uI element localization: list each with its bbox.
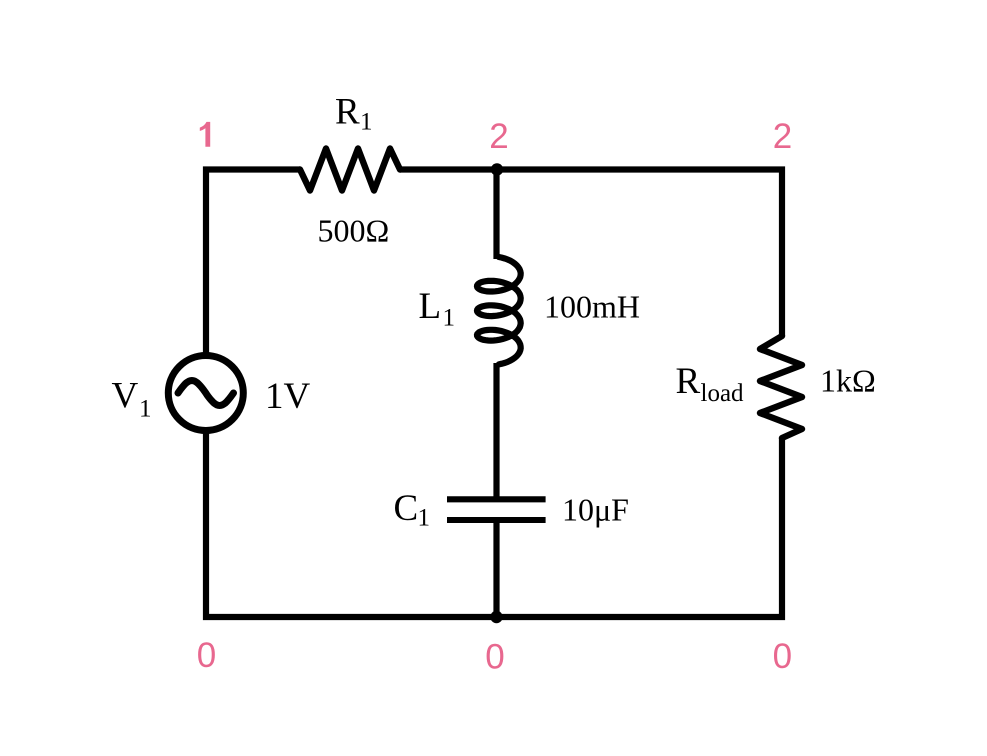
wire: L1 to C1: [493, 363, 499, 501]
capacitor C1 bottom plate: [447, 517, 546, 523]
inductor L1: [477, 257, 521, 364]
svg-text:load: load: [701, 380, 745, 407]
wire: top rail from R1 to top-right corner, down to Rload: [400, 170, 782, 337]
voltage source V1 circle: [168, 356, 243, 431]
svg-text:1: 1: [418, 505, 431, 532]
svg-text:2: 2: [489, 117, 508, 156]
wire: C1 down to bottom rail: [493, 520, 499, 617]
svg-text:L: L: [419, 286, 442, 327]
resistor R1: [300, 149, 400, 191]
svg-text:R: R: [676, 361, 701, 402]
resistor Rload: [760, 336, 802, 438]
svg-text:1: 1: [139, 396, 152, 423]
capacitor C1 top plate: [447, 496, 546, 502]
svg-text:C: C: [394, 488, 419, 529]
svg-text:0: 0: [773, 637, 792, 676]
wire: node 1 top-left corner, left branch down to V1: [206, 170, 300, 357]
svg-text:1kΩ: 1kΩ: [820, 363, 876, 399]
node label 1: [200, 122, 210, 147]
svg-text:1: 1: [443, 305, 456, 332]
svg-text:2: 2: [773, 117, 792, 156]
wire: Rload down, bottom rail, up to V1 bottom: [206, 430, 782, 617]
svg-text:1: 1: [360, 109, 373, 136]
svg-text:V: V: [112, 376, 139, 417]
svg-text:R: R: [335, 92, 360, 133]
node 2 junction dot: [491, 163, 503, 175]
svg-text:0: 0: [197, 636, 216, 675]
wire: middle branch from node 2 down to L1: [493, 170, 499, 260]
svg-text:500Ω: 500Ω: [318, 213, 390, 249]
node 0 junction dot: [490, 611, 502, 623]
svg-text:0: 0: [485, 638, 504, 677]
svg-text:100mH: 100mH: [544, 289, 640, 325]
svg-text:10μF: 10μF: [562, 492, 629, 528]
svg-text:1V: 1V: [265, 376, 311, 417]
voltage source V1 sine symbol: [178, 381, 234, 406]
